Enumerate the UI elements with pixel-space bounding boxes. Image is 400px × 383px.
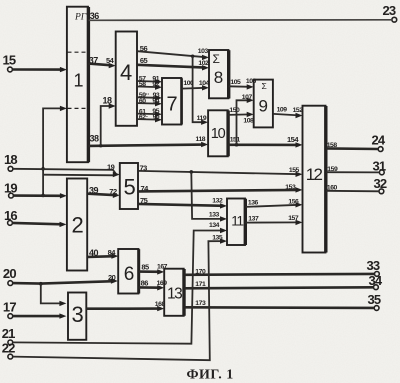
wire 22 (terminal 22 up to block 11 input 135) — [13, 235, 227, 361]
svg-text:168: 168 — [155, 301, 166, 308]
svg-text:107: 107 — [242, 94, 253, 101]
svg-text:23: 23 — [383, 3, 396, 18]
svg-text:171: 171 — [195, 281, 206, 288]
svg-text:158: 158 — [327, 142, 338, 149]
svg-text:Σ: Σ — [262, 81, 267, 91]
svg-text:157: 157 — [288, 215, 299, 222]
svg-text:20: 20 — [108, 273, 116, 282]
svg-text:32: 32 — [374, 176, 387, 191]
svg-text:РГ: РГ — [74, 13, 87, 23]
wire branch 20 (junction down into block 3) — [41, 284, 67, 306]
svg-text:151: 151 — [230, 136, 241, 143]
wire 107 (branch of 151 up to block 9 input 107) — [237, 94, 254, 145]
terminal 31 — [373, 158, 386, 175]
block 3 — [68, 293, 86, 340]
wire riser 18 (junction on wire 38 up into block 4) — [99, 96, 116, 148]
svg-text:38: 38 — [90, 134, 100, 144]
wire 171 (block 13 to terminal 34) — [184, 281, 373, 289]
svg-text:58: 58 — [139, 81, 146, 88]
svg-text:31: 31 — [373, 158, 386, 173]
wire 20 (terminal 20 to block 6, with junction dot) — [13, 273, 118, 285]
svg-text:36: 36 — [90, 11, 100, 21]
wire 56 (block 4 to block 8 input 103, with branch dot) — [137, 44, 209, 60]
wire 74 (block 5 to block 12 input 153) — [138, 184, 302, 193]
svg-text:·: · — [146, 113, 148, 120]
svg-text:104: 104 — [199, 80, 210, 87]
wire 73 (block 5 to block 12 input 155, with branch dot) — [138, 164, 302, 178]
svg-text:3: 3 — [72, 302, 84, 327]
terminal 34 — [369, 273, 383, 289]
svg-text:155: 155 — [289, 167, 300, 174]
wire 100 (block 7 to block 8 input 104) — [182, 80, 210, 91]
wire V2 (branch of 56 down to block 10 input 119) — [193, 56, 209, 125]
terminal 17 — [3, 300, 16, 319]
svg-text:159: 159 — [327, 166, 338, 173]
wire 160 (block 12 to terminal 32) — [326, 185, 379, 192]
terminal 23 — [383, 3, 397, 22]
wire 37 (block 1 to block 4, input 54) — [89, 56, 116, 69]
caption FIG. 1 — [187, 368, 234, 383]
svg-text:60: 60 — [139, 98, 146, 105]
svg-text:169: 169 — [157, 280, 168, 287]
svg-text:119: 119 — [197, 115, 207, 122]
wire 38 (block 1 to block 10, input 118) — [89, 134, 209, 148]
svg-text:150: 150 — [229, 107, 240, 114]
block 6 — [118, 249, 139, 294]
svg-text:102: 102 — [198, 60, 209, 67]
wire 39 (block 2 to block 5 input 72) — [88, 186, 120, 198]
svg-text:134: 134 — [209, 222, 220, 229]
terminal 33 — [367, 258, 380, 277]
svg-text:118: 118 — [196, 136, 206, 143]
svg-text:7: 7 — [167, 94, 178, 116]
terminal 22 — [2, 341, 15, 360]
wire 158 (block 12 to terminal 24) — [326, 142, 378, 149]
svg-text:ФИГ. 1: ФИГ. 1 — [187, 368, 234, 383]
svg-text:173: 173 — [195, 300, 206, 307]
block 5 — [120, 163, 138, 209]
svg-text:12: 12 — [306, 165, 323, 184]
terminal 20 — [3, 266, 16, 286]
svg-text:35: 35 — [368, 292, 381, 307]
wire 75 (block 5 to block 11 input 132) — [138, 196, 227, 209]
svg-text:37: 37 — [89, 56, 99, 66]
svg-text:72: 72 — [109, 187, 117, 196]
svg-text:154: 154 — [287, 135, 299, 144]
svg-text:11: 11 — [231, 214, 243, 229]
wire 16 (terminal 16 to block 2) — [12, 222, 66, 227]
wire 40 (block 2 to block 6 input 84) — [88, 248, 119, 259]
svg-text:8: 8 — [214, 68, 223, 87]
wire bus V1 (left vertical bus into block 1) — [41, 106, 67, 198]
svg-text:108: 108 — [243, 118, 254, 125]
svg-text:21: 21 — [2, 326, 15, 341]
svg-text:33: 33 — [367, 258, 380, 273]
svg-text:167: 167 — [157, 263, 168, 270]
svg-text:94: 94 — [152, 98, 159, 105]
svg-text:153: 153 — [285, 184, 296, 191]
svg-text:170: 170 — [195, 268, 206, 275]
svg-text:34: 34 — [369, 273, 383, 288]
wire 86 (block 6 to block 13 input 169) — [139, 279, 168, 291]
block 2 — [67, 179, 87, 271]
svg-text:96: 96 — [153, 114, 160, 121]
wire block 3 output (to block 13 input 168) — [87, 301, 166, 311]
svg-text:4: 4 — [120, 60, 132, 85]
svg-text:65: 65 — [140, 56, 148, 65]
block 10 — [208, 110, 228, 156]
svg-text:135: 135 — [212, 235, 223, 242]
svg-text:56: 56 — [140, 44, 148, 53]
wire 173 (block 13 to terminal 35) — [184, 300, 374, 308]
wire 170 (block 13 to terminal 33) — [184, 268, 374, 275]
svg-text:85: 85 — [141, 263, 149, 272]
terminal 18 — [4, 152, 17, 171]
svg-text:16: 16 — [4, 208, 17, 223]
svg-text:1: 1 — [74, 71, 84, 91]
svg-text:152: 152 — [293, 107, 304, 114]
wire 17 (terminal 17 to block 3) — [13, 313, 67, 318]
block 7 — [162, 78, 182, 125]
svg-text:6: 6 — [124, 264, 134, 285]
svg-text:103: 103 — [198, 48, 209, 55]
terminal 21 — [2, 326, 15, 345]
svg-text:··: ·· — [146, 91, 150, 98]
svg-text:17: 17 — [3, 300, 16, 315]
svg-text:10: 10 — [211, 126, 226, 142]
terminal 15 — [3, 53, 16, 72]
svg-text:40: 40 — [89, 248, 99, 258]
svg-text:18: 18 — [103, 96, 113, 106]
block 11 — [227, 199, 245, 246]
svg-text:9: 9 — [259, 97, 268, 116]
svg-text:18: 18 — [4, 152, 17, 167]
wire 105 (block 8 to block 9 input 106) — [229, 78, 257, 90]
svg-text:20: 20 — [3, 266, 16, 281]
svg-text:24: 24 — [372, 133, 386, 148]
svg-text:132: 132 — [212, 198, 223, 205]
svg-text:92: 92 — [152, 81, 159, 88]
wire 151 (block 10 to block 12 input 154, with branch dot) — [228, 135, 302, 148]
wire 15 (terminal 15 to block 1) — [12, 67, 67, 72]
terminal 16 — [4, 208, 17, 225]
svg-text:19: 19 — [107, 163, 115, 172]
svg-text:39: 39 — [89, 186, 99, 196]
block 1 (register RG) — [67, 7, 89, 163]
svg-text:13: 13 — [167, 286, 182, 303]
svg-text:75: 75 — [140, 196, 148, 205]
svg-text:133: 133 — [209, 212, 220, 219]
svg-text:100: 100 — [183, 80, 194, 87]
adder block 9 (sigma) — [254, 80, 273, 128]
wire 159 (block 12 to terminal 31) — [326, 166, 379, 173]
svg-text:109: 109 — [277, 107, 288, 114]
svg-text:106: 106 — [246, 78, 257, 85]
svg-text:5: 5 — [124, 175, 136, 200]
terminal 19 — [4, 180, 17, 198]
svg-text:156: 156 — [288, 199, 299, 206]
block 13 — [164, 269, 184, 316]
svg-text:160: 160 — [327, 185, 338, 192]
svg-text:86: 86 — [141, 279, 149, 288]
wire 19 (terminal 19 to block 2) — [13, 193, 67, 198]
wire 36 (block 1 to terminal 23) — [89, 11, 393, 21]
svg-text:73: 73 — [140, 164, 148, 173]
svg-text:137: 137 — [248, 215, 259, 222]
svg-text:15: 15 — [3, 53, 16, 68]
svg-text:Σ: Σ — [213, 52, 220, 66]
svg-text:19: 19 — [4, 180, 17, 195]
wire 109 (block 9 to block 12 input 152) — [273, 107, 303, 119]
wire 150 (block 10 to block 9 input 108) — [228, 107, 254, 125]
block 12 — [303, 106, 326, 253]
wire 136 (block 11 to block 12 input 156) — [246, 199, 303, 208]
svg-text:2: 2 — [72, 213, 84, 238]
svg-text:136: 136 — [248, 199, 259, 206]
wires 57-62 (block 4 to block 7 inputs 91-96, six lines) — [137, 75, 162, 122]
wire 21 (terminal 21 up to block 11 input 134) — [13, 222, 227, 344]
block 4 — [116, 32, 137, 126]
wire 18 (terminal 18 to bus, continuing to block 5 input, label 19) — [13, 163, 120, 178]
terminal 35 — [368, 292, 381, 311]
wire 137 (block 11 to block 12 input 157) — [246, 215, 303, 225]
wire 65 (block 4 to block 8 input 102) — [137, 56, 209, 70]
wire 85 (block 6 to block 13 input 167) — [139, 263, 168, 275]
op-amp/adder block 8 (sigma) — [209, 50, 229, 99]
svg-text:105: 105 — [230, 79, 241, 86]
terminal 32 — [374, 176, 387, 194]
wire 133 (branch of 73 down to block 11 input 133) — [191, 172, 227, 222]
terminal 24 — [372, 133, 386, 152]
